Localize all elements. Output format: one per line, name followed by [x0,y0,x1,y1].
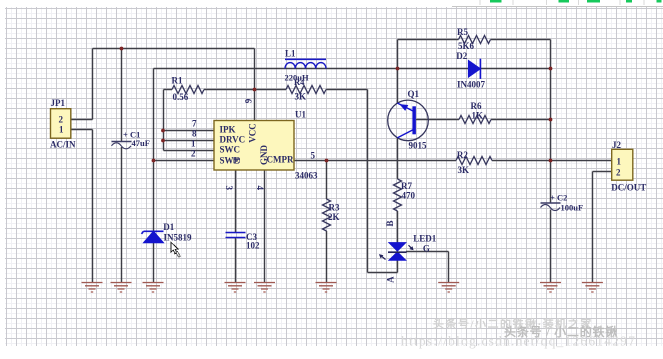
wire R7 bottom to LED1 [397,211,399,243]
svg-text:R2: R2 [457,150,468,160]
svg-text:D2: D2 [456,51,467,61]
browser toolbar sliver top-right [437,0,663,7]
node C1 top junction [120,47,124,51]
svg-text:+ C2: + C2 [550,193,567,203]
wire U1 pin4 column to ground [264,170,266,283]
svg-text:1K: 1K [472,111,484,121]
LED LED1 [379,243,414,261]
ground C3 / pin3 [225,283,246,293]
node pin8 junction [161,139,165,143]
svg-text:R5: R5 [457,27,468,37]
resistor R7 [394,179,402,211]
wire U1 pin6 vertical [254,49,256,121]
resistor R3 [323,199,331,231]
svg-text:SWC: SWC [220,145,241,155]
svg-text:CMPR: CMPR [267,155,294,165]
svg-text:JP1: JP1 [51,98,66,108]
wire U1 pin1 stub [164,150,215,152]
wire U1 pin7 stub [164,130,215,132]
svg-text:0.56: 0.56 [173,92,189,102]
capacitor C1 [112,142,132,149]
connector J2 [612,149,633,180]
ground JP1 pin1 [82,283,103,293]
svg-text:8: 8 [192,129,197,139]
connector JP1 [51,109,71,139]
mouse cursor [171,242,180,257]
svg-text:L1: L1 [285,49,296,59]
svg-text:3: 3 [224,185,234,190]
svg-text:100uF: 100uF [561,203,584,213]
svg-text:47uF: 47uF [132,138,150,148]
wire R3 column [326,161,328,283]
svg-text:A: A [385,276,395,283]
ground pin4 [254,283,275,293]
svg-text:1: 1 [59,125,64,135]
wire R1 left vertical to pins 7,8,1 [163,90,165,151]
wire U1 pin5 feedback row y=160.5 [294,160,612,162]
svg-text:U1: U1 [295,110,306,120]
wire JP1 pin1 stub and down to ground [71,130,93,283]
svg-text:34063: 34063 [295,171,318,181]
svg-text:2: 2 [191,149,196,159]
wire right bus x=550.5 [550,40,552,283]
svg-text:VCC: VCC [248,123,258,143]
wire R6 right to bus [491,119,551,121]
wire U1 pin3 column with C3 [235,170,237,283]
ground C1 [111,283,132,293]
wire Q1 base to R6 [416,119,459,121]
svg-text:B: B [385,220,395,226]
resistor R1 [172,86,204,94]
svg-text:5K6: 5K6 [458,41,475,51]
node pin5/R3 junction [325,159,329,163]
wire R5 row y=39.5 [398,39,551,41]
svg-text:IN5819: IN5819 [164,233,193,243]
capacitor C2 [541,203,561,211]
diode D1 [142,231,164,242]
wire C1 top column [121,49,123,142]
svg-text:3K: 3K [295,92,307,102]
ground R3 [316,283,337,293]
wire R4 right side down x=367.5 [367,90,369,273]
wire D1 column top [153,69,155,232]
svg-text:R3: R3 [329,203,340,213]
svg-text:R1: R1 [172,76,183,86]
wire rail A top-left (y=48) [93,48,255,50]
ground C2 [540,283,561,293]
node Q1 collector / rail B junction [396,67,400,71]
svg-text:1: 1 [191,139,196,149]
wire J2 pin2 to ground [593,172,612,283]
wire C1 bottom to ground [121,147,123,283]
diode D2 [468,59,480,79]
transistor Q1 [388,100,429,141]
capacitor C3 [226,233,246,238]
svg-text:2: 2 [59,115,64,125]
wire Q1 collector vertical [397,40,399,104]
svg-text:DRVC: DRVC [220,135,246,145]
svg-text:DC/OUT: DC/OUT [611,183,646,193]
node R2 / bus junction [549,159,553,163]
node pin7 junction [161,129,165,133]
wire R1/R4 row y=89.5 [164,89,368,91]
resistor R2 [456,157,492,165]
node D2 / bus junction [549,67,553,71]
svg-text:102: 102 [246,241,260,251]
svg-text:Q1: Q1 [408,89,420,99]
svg-text:https://blog.csdn.net/qq_12661: https://blog.csdn.net/qq_126614297 [401,334,636,349]
wire U1 pin2 stub from D1 column [154,160,215,162]
wire JP1 pin2 up to rail A [71,49,93,120]
wire LED1 gate to ground [406,252,449,283]
resistor R4 [286,86,326,94]
svg-text:9015: 9015 [409,140,428,150]
svg-text:1: 1 [617,156,622,166]
watermark [401,317,636,349]
svg-text:6: 6 [243,99,253,104]
resistor R5 [459,36,491,44]
node R6 / bus junction [549,118,553,122]
svg-text:2: 2 [616,168,621,178]
wire U1 pin8 stub [164,140,215,142]
svg-text:4: 4 [255,185,265,190]
svg-text:AC/IN: AC/IN [50,140,76,150]
ground LED gate [438,283,459,293]
wire Q1 emitter down to R7 [397,138,399,179]
wire rail B (switch node y=68.5) [154,68,551,70]
svg-text:5: 5 [311,151,316,161]
svg-text:E: E [231,157,241,163]
node pin2/D1 column junction [152,159,156,163]
svg-text:D1: D1 [163,222,174,232]
svg-text:7: 7 [192,119,197,129]
svg-text:IPK: IPK [220,125,236,135]
wire node A horizontal under LED [368,261,398,273]
op-amp U1 34063 body [214,121,294,171]
svg-text:G: G [423,244,430,254]
svg-text:470: 470 [402,190,416,200]
resistor R6 [459,116,491,124]
svg-text:R4: R4 [294,77,305,87]
inductor L1 [285,59,326,68]
svg-text:IN4007: IN4007 [457,80,486,90]
node pin6/R1 row junction [253,88,257,92]
svg-text:3K: 3K [458,165,470,175]
svg-text:2K: 2K [328,212,340,222]
svg-text:J2: J2 [612,140,622,150]
ground D1 [143,283,164,293]
svg-text:LED1: LED1 [413,234,437,244]
ground J2 pin2 [582,283,603,293]
wire D1 column bottom to ground [153,243,155,283]
